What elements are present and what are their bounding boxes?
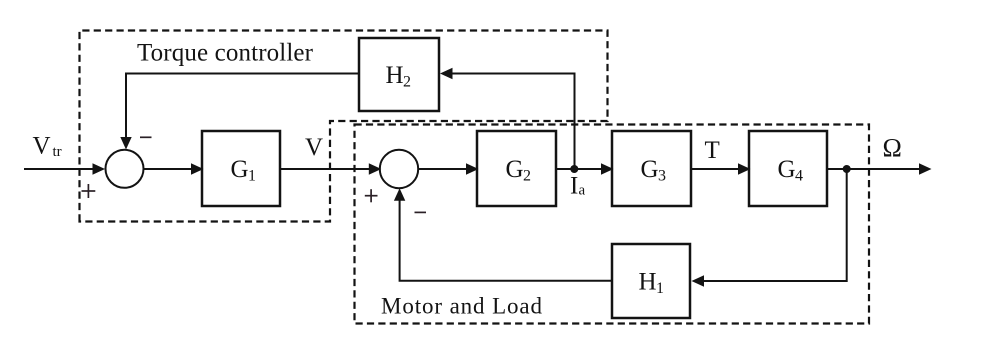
svg-text:V: V bbox=[33, 133, 51, 160]
svg-text:tr: tr bbox=[53, 144, 62, 160]
svg-text:T: T bbox=[705, 137, 720, 164]
svg-text:H: H bbox=[386, 62, 404, 89]
svg-text:3: 3 bbox=[658, 168, 666, 185]
svg-text:Torque controller: Torque controller bbox=[137, 39, 314, 66]
svg-text:G: G bbox=[231, 156, 249, 183]
svg-text:G: G bbox=[641, 156, 659, 183]
svg-text:2: 2 bbox=[523, 168, 531, 185]
svg-text:I: I bbox=[570, 173, 578, 200]
svg-text:1: 1 bbox=[248, 168, 256, 185]
svg-text:H: H bbox=[639, 269, 657, 296]
svg-text:a: a bbox=[579, 183, 586, 199]
svg-text:2: 2 bbox=[403, 74, 411, 91]
svg-text:V: V bbox=[305, 134, 323, 161]
svg-text:1: 1 bbox=[656, 280, 664, 297]
svg-text:G: G bbox=[778, 156, 796, 183]
svg-text:Motor and Load: Motor and Load bbox=[381, 293, 543, 318]
svg-text:G: G bbox=[506, 156, 524, 183]
svg-text:Ω: Ω bbox=[883, 134, 902, 163]
svg-text:4: 4 bbox=[795, 168, 803, 185]
